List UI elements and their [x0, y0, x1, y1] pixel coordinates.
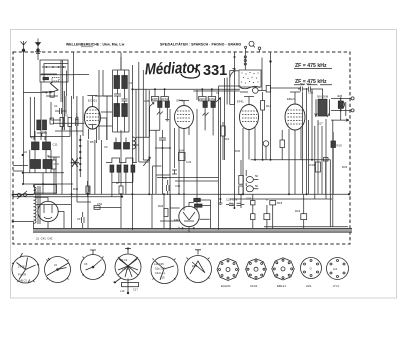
hook wire left of box	[230, 71, 239, 78]
svg-text:R5: R5	[90, 140, 94, 144]
wire vertical x234	[233, 92, 235, 208]
svg-text:21S: 21S	[160, 276, 165, 280]
tube V4 grids	[288, 110, 303, 124]
junction speaker dots	[340, 98, 342, 112]
antenna 2	[35, 39, 41, 54]
power transformer TR winding	[34, 187, 37, 223]
svg-text:4Ω5: 4Ω5	[337, 94, 343, 98]
bandfilter BF2 coil c	[114, 104, 120, 117]
svg-text:EBL21: EBL21	[277, 284, 286, 288]
resistor R26	[164, 209, 168, 217]
IF2 trimmer arrow	[216, 98, 221, 102]
capacitor C17	[86, 181, 89, 197]
node dots mid	[148, 147, 185, 195]
wire vertical x156	[155, 130, 157, 194]
svg-text:504 504: 504 504	[300, 82, 311, 86]
junction band dots	[182, 227, 195, 229]
socket rim ticks X5	[153, 259, 176, 280]
resistor R13	[266, 86, 270, 93]
socket rim ticks X3	[83, 257, 104, 276]
power transformer frame	[35, 185, 57, 194]
tube V1 ECH21 envelope	[84, 107, 100, 130]
svg-text:2x4: 2x4	[333, 267, 338, 271]
bus line y199	[230, 198, 332, 200]
svg-text:G: G	[310, 267, 313, 271]
capacitor C31	[298, 87, 305, 92]
wire vertical x218	[218, 86, 220, 230]
svg-text:19 18: 19 18	[18, 265, 25, 269]
socket X4	[115, 249, 141, 281]
mains plug	[13, 191, 34, 199]
svg-text:C6: C6	[84, 262, 88, 266]
wire right column x340	[303, 92, 315, 199]
tuner contact dots	[46, 66, 65, 68]
caption underline	[81, 46, 93, 48]
box B2	[50, 118, 54, 124]
svg-text:R26: R26	[158, 204, 164, 208]
svg-text:R19: R19	[337, 144, 343, 148]
power transformer core	[38, 186, 40, 224]
coil block L8a	[31, 160, 41, 169]
wire V2 anode	[179, 101, 189, 106]
socket X8 octal	[246, 259, 267, 280]
arrow to border	[331, 110, 349, 121]
svg-text:WELLENBEREICHE : Ukw, Mw, Lw: WELLENBEREICHE : Ukw, Mw, Lw	[66, 43, 125, 47]
speaker terminals	[351, 97, 354, 112]
wire IF2	[202, 89, 220, 200]
svg-text:R18: R18	[277, 201, 283, 205]
output transformer T-OUT	[315, 99, 330, 117]
wire vertical right x322	[321, 126, 323, 194]
wire vertical x103	[102, 70, 104, 96]
bus line y194	[13, 193, 348, 195]
svg-text:SPEZIALITÄTEN : SPARSCH · PHON: SPEZIALITÄTEN : SPARSCH · PHONO · GRAMO	[160, 43, 242, 47]
wire mid right mesh	[241, 130, 282, 208]
socket X4 top dot	[127, 247, 129, 249]
IF1 tag box P	[151, 97, 158, 101]
osc outline wire	[106, 158, 137, 163]
svg-text:21T: 21T	[318, 122, 323, 126]
switch cross S4	[71, 158, 80, 167]
svg-text:C50: C50	[308, 91, 314, 95]
trimmer block b	[43, 120, 47, 130]
IF2 core arrows	[203, 113, 209, 116]
wire R20	[326, 132, 334, 195]
wire R12	[262, 92, 264, 160]
svg-text:L46 C2: L46 C2	[19, 280, 27, 283]
wire vertical x149	[148, 90, 150, 194]
capacitor C18	[82, 212, 85, 229]
dashed schematic border	[13, 52, 350, 244]
wire heater rail y204	[36, 204, 71, 206]
wire R34	[222, 122, 224, 160]
capacitor C16	[263, 141, 269, 147]
svg-text:21S1: 21S1	[161, 97, 168, 101]
trimmer block a	[37, 120, 41, 130]
wire vertical right x330	[329, 160, 331, 227]
socket X9 octal	[272, 258, 294, 280]
osc row coil 1	[110, 165, 114, 172]
resistor R16	[280, 140, 285, 148]
svg-text:C34: C34	[246, 197, 252, 201]
wire left bus verticals	[56, 96, 102, 197]
svg-text:C28 C29: C28 C29	[226, 198, 237, 202]
wire Q down	[245, 48, 247, 52]
capacitor C16b	[76, 96, 79, 135]
socket X1	[12, 253, 39, 283]
resistor R27	[119, 186, 123, 194]
speaker LS	[338, 101, 344, 108]
IF1 trimmer arrow	[150, 103, 155, 107]
bandfilter BF2 coil a	[114, 76, 120, 89]
wire y92 left	[23, 91, 46, 93]
resistor R23	[301, 214, 307, 220]
tube V4 EBL21 envelope	[285, 104, 305, 130]
socket X10	[301, 258, 322, 279]
bus line y197	[13, 196, 121, 198]
tube V3 grids	[242, 111, 257, 122]
socket rim ticks X6	[187, 258, 210, 279]
wire y221	[160, 220, 179, 222]
resistor R17	[251, 201, 255, 205]
bus line y227	[264, 226, 348, 228]
wire left column mesh	[41, 82, 61, 140]
svg-text:R19: R19	[310, 163, 316, 167]
tuner contact wire	[42, 66, 66, 68]
trimmer dashed box	[52, 78, 59, 82]
chassis bus band	[33, 228, 352, 232]
wire vertical x174	[174, 128, 176, 168]
wire x34	[33, 97, 35, 137]
tuner frame A	[40, 60, 68, 82]
wire horizontal y96	[95, 95, 113, 97]
junction dots buses	[71, 88, 314, 209]
wire V3 pins	[243, 127, 255, 195]
socket X2	[45, 257, 71, 283]
capacitor C3	[55, 108, 67, 114]
wire right column x333	[332, 120, 334, 227]
svg-text:R23: R23	[295, 209, 301, 213]
resistor R12	[261, 101, 265, 111]
wire V6	[36, 197, 64, 228]
wire vertical x197	[196, 90, 198, 210]
wire horizontal y120 left	[99, 96, 113, 126]
socket rim ticks X2	[47, 260, 69, 280]
antenna 1	[21, 41, 27, 54]
osc coil Lb	[124, 143, 130, 150]
wire mesh mid-left	[55, 96, 83, 137]
tube V2 EF41 envelope	[175, 106, 194, 129]
svg-text:R1: R1	[65, 114, 69, 118]
socket X5	[151, 257, 178, 284]
svg-text:C17: C17	[133, 288, 138, 292]
resistor R20	[331, 141, 336, 148]
dot x234	[234, 56, 236, 58]
capacitor C30	[253, 88, 259, 94]
resistor R19	[316, 162, 321, 172]
wire vertical x136	[135, 89, 137, 162]
socket X6	[185, 250, 212, 283]
IF2 tag box P	[199, 97, 206, 101]
svg-text:21P1: 21P1	[152, 97, 159, 101]
resistor R18	[270, 201, 276, 205]
socket X4 box	[122, 283, 139, 287]
resistor R2	[68, 118, 72, 127]
resistor R41	[86, 186, 90, 194]
svg-text:PU GR: PU GR	[18, 273, 26, 277]
wire horizontal y74 left	[41, 73, 57, 75]
resistor R29	[94, 206, 100, 210]
wire mains lower	[13, 185, 34, 230]
wire bottom mid mesh	[253, 194, 304, 229]
capacitor C21	[172, 170, 177, 174]
IF2 coil a	[203, 101, 207, 107]
wire mid horizontals	[132, 145, 170, 194]
svg-text:EF41: EF41	[237, 100, 244, 104]
coil block L6b	[43, 142, 51, 150]
svg-text:L5: L5	[54, 263, 57, 267]
svg-text:C9: C9	[163, 176, 167, 180]
wire vertical x66	[66, 71, 68, 97]
resistor R22	[264, 214, 270, 220]
svg-text:R7: R7	[116, 181, 120, 185]
resistor R34	[221, 126, 225, 136]
wire vertical x241	[234, 53, 236, 105]
svg-text:C11: C11	[53, 143, 58, 147]
wire left extras	[48, 137, 62, 195]
svg-text:R31: R31	[224, 137, 230, 141]
osc bottom wires	[112, 138, 133, 197]
switch bend wire	[42, 82, 58, 93]
coil L6	[132, 137, 135, 149]
bandfilter BF2 frame	[113, 70, 130, 132]
IF1 coil b	[165, 101, 169, 107]
svg-text:L40 C45: L40 C45	[154, 262, 164, 266]
resistor R24	[194, 198, 201, 201]
svg-text:50: 50	[255, 174, 259, 178]
tube V5 internals	[183, 202, 195, 221]
logo swash	[181, 68, 200, 78]
svg-text:L6: L6	[24, 150, 28, 154]
wire vertical x170	[169, 109, 171, 230]
svg-text:C44: C44	[186, 160, 192, 164]
wire vertical x224	[223, 78, 225, 160]
electrolytic C14	[246, 177, 253, 183]
wire row1	[30, 131, 51, 173]
wire V2 pins	[179, 127, 189, 211]
tube V2 grids	[177, 111, 191, 122]
svg-text:S1a 21P: S1a 21P	[155, 267, 165, 271]
svg-text:21 C41 C42: 21 C41 C42	[36, 237, 53, 241]
junction y92	[46, 91, 48, 93]
coil block L8b	[43, 160, 52, 169]
tube V5 EM4 envelope	[179, 206, 199, 226]
mains border dots	[12, 194, 14, 223]
IF1 core arrows	[157, 112, 163, 115]
IF1 coil a	[158, 101, 162, 107]
socket X3	[81, 250, 106, 280]
wire horizontal y130	[136, 130, 160, 137]
wire vertical x152b	[152, 166, 154, 194]
osc junction dot	[121, 195, 123, 197]
svg-text:331: 331	[203, 63, 227, 79]
svg-text:ECH21: ECH21	[221, 284, 231, 288]
socket X4 stem dot	[127, 292, 129, 294]
svg-text:ZF = 475 kHz: ZF = 475 kHz	[295, 63, 327, 69]
wire top cluster T3	[227, 71, 248, 105]
wire vertical right x326	[325, 119, 327, 199]
wire transformer top	[314, 89, 323, 99]
svg-text:C17: C17	[77, 217, 83, 221]
beaded lead-in	[244, 53, 246, 71]
wire horizontal y168	[153, 166, 171, 175]
box B1	[50, 92, 54, 98]
bandfilter BF2 coil b	[122, 76, 128, 89]
svg-text:C1: C1	[54, 104, 58, 108]
svg-text:C2: C2	[42, 130, 46, 134]
wire verticals x61	[61, 60, 63, 102]
capacitor C4	[76, 113, 79, 131]
beaded wire x80	[80, 135, 82, 177]
bandfilter BF2 coil d	[122, 104, 128, 117]
svg-text:R12: R12	[266, 104, 272, 108]
wire vertical x146	[145, 89, 147, 137]
wire dial double	[63, 91, 65, 130]
socket X4 spokes extra	[114, 257, 138, 283]
resistor R15	[239, 186, 244, 195]
socket X7 octal	[217, 259, 239, 281]
wire trimmer bottoms	[37, 133, 47, 137]
ground sym 2	[218, 200, 222, 205]
tube V1 grids	[87, 110, 99, 121]
svg-text:C29: C29	[229, 203, 235, 207]
resistor R25	[195, 204, 203, 207]
wire vertical x143	[142, 70, 144, 160]
wire x121 down	[120, 130, 122, 228]
wire V1 anode top	[87, 96, 97, 107]
junction border dot	[348, 193, 350, 195]
osc row coil 4	[131, 165, 135, 172]
svg-text:1M4: 1M4	[179, 149, 185, 153]
svg-text:50V 50M: 50V 50M	[317, 95, 329, 99]
detector box speckled	[239, 70, 261, 89]
svg-text:EM4: EM4	[192, 264, 198, 268]
socket X4 stem	[127, 279, 129, 293]
socket X11	[327, 258, 349, 280]
svg-text:R30: R30	[235, 149, 241, 153]
rail y86	[219, 85, 241, 87]
rail y89	[132, 89, 240, 91]
wire V5 mesh	[152, 194, 211, 233]
wire left bottom	[72, 194, 92, 228]
node dots left	[22, 154, 44, 185]
svg-text:7a: 7a	[216, 91, 220, 95]
bandfilter BF2 trimmers	[114, 88, 128, 106]
wire V1 to BF2	[101, 112, 113, 140]
IF1 tag box S	[161, 97, 169, 101]
wire top rail stubs	[120, 57, 122, 70]
svg-text:C48: C48	[144, 99, 150, 103]
svg-text:C6: C6	[104, 145, 108, 149]
wire y74.7	[40, 74, 74, 76]
svg-text:50: 50	[255, 184, 259, 188]
svg-text:R40: R40	[73, 187, 79, 191]
wire V4 pins	[289, 88, 307, 194]
osc coil La	[114, 143, 121, 150]
capacitor C48b	[324, 158, 329, 162]
wire antenna into tuner	[37, 54, 39, 61]
resistor R14	[239, 175, 244, 184]
resistor R28	[52, 160, 56, 169]
mixer frame C	[74, 75, 90, 100]
svg-text:EM4: EM4	[174, 218, 180, 222]
resistor R21	[251, 214, 255, 220]
wire vertical x138	[138, 62, 140, 162]
svg-text:C52: C52	[97, 202, 103, 206]
wire right column x312	[311, 89, 313, 160]
wire y123	[53, 122, 85, 124]
wire x73 to border	[73, 53, 75, 75]
wire V3 anode	[244, 97, 254, 105]
wire V1 pins down	[88, 127, 96, 143]
resistor R1	[60, 118, 64, 127]
IF2 coil b	[211, 101, 215, 107]
IF2 tag box S	[208, 97, 216, 101]
arrow AVC	[230, 69, 235, 72]
svg-text:0k1: 0k1	[47, 154, 52, 158]
svg-text:EBL21: EBL21	[287, 97, 296, 101]
wire IF1	[150, 89, 168, 137]
svg-text:Médiator: Médiator	[145, 60, 201, 79]
jack Q	[245, 41, 261, 52]
wire vertical x99	[98, 70, 100, 140]
wire y88 rail	[258, 58, 301, 91]
tube V1 cathode	[89, 125, 97, 130]
coil dash L0	[43, 77, 49, 79]
wire y177	[157, 178, 218, 182]
tube V6 internals	[44, 197, 52, 218]
wire x270 long	[270, 53, 272, 161]
capacitor C8	[159, 130, 166, 148]
tube V6 rectifier envelope	[38, 201, 58, 221]
wire x30	[29, 97, 31, 137]
wire vertical x132	[131, 65, 133, 230]
svg-text:C3: C3	[129, 81, 133, 85]
resistor R6	[179, 153, 186, 161]
dot x270	[269, 60, 271, 62]
wire right column x318	[317, 120, 319, 194]
wire horizontal left y165	[13, 166, 28, 172]
svg-text:R33: R33	[342, 165, 348, 169]
wire row2 bottom	[23, 169, 73, 195]
osc row coil 2	[117, 165, 121, 172]
svg-text:AZ1: AZ1	[306, 284, 312, 288]
ground sym 1	[165, 115, 169, 121]
tuner frame B	[44, 64, 68, 83]
scan page edge	[11, 30, 397, 299]
svg-text:21S2: 21S2	[209, 97, 216, 101]
wire speaker rails	[331, 99, 351, 111]
underline ZF first	[294, 68, 332, 70]
wire vertical x107	[106, 96, 108, 140]
bus line y160 right	[251, 159, 331, 161]
coil block L6a	[32, 142, 40, 150]
switch arm S3	[143, 157, 150, 166]
svg-text:C44 L41: C44 L41	[155, 271, 165, 275]
svg-text:L10: L10	[120, 289, 125, 293]
svg-text:CY4: CY4	[333, 284, 339, 288]
capacitor pair C29	[226, 203, 244, 205]
